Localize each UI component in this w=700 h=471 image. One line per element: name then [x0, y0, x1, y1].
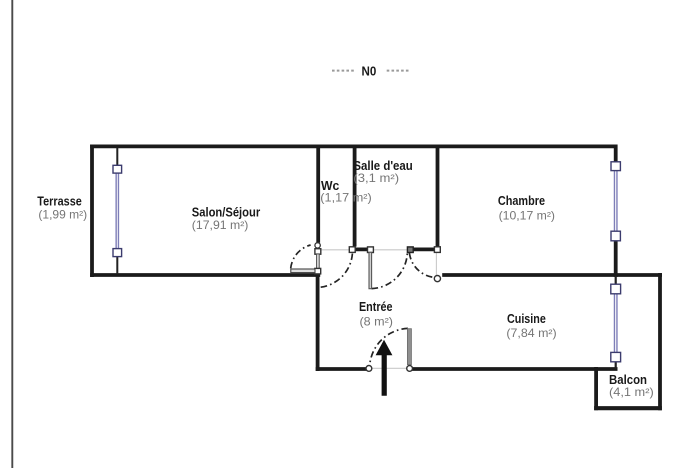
svg-text:(10,17 m²): (10,17 m²): [499, 209, 556, 222]
svg-text:Salon/Séjour: Salon/Séjour: [192, 204, 260, 219]
svg-text:(1,17 m²): (1,17 m²): [320, 192, 372, 205]
svg-text:(4,1 m²): (4,1 m²): [609, 386, 654, 399]
svg-text:Terrasse: Terrasse: [37, 194, 82, 209]
svg-text:Salle d'eau: Salle d'eau: [353, 158, 412, 173]
svg-text:(17,91 m²): (17,91 m²): [192, 219, 249, 232]
svg-text:Cuisine: Cuisine: [507, 311, 546, 326]
svg-text:(1,99 m²): (1,99 m²): [38, 209, 87, 222]
svg-text:Chambre: Chambre: [498, 193, 545, 208]
svg-text:(7,84 m²): (7,84 m²): [506, 327, 556, 340]
svg-text:(3,1 m²): (3,1 m²): [353, 172, 399, 185]
svg-text:Entrée: Entrée: [359, 299, 393, 314]
svg-text:Balcon: Balcon: [609, 372, 647, 387]
svg-text:N0: N0: [362, 64, 377, 79]
svg-text:(8 m²): (8 m²): [360, 316, 394, 329]
